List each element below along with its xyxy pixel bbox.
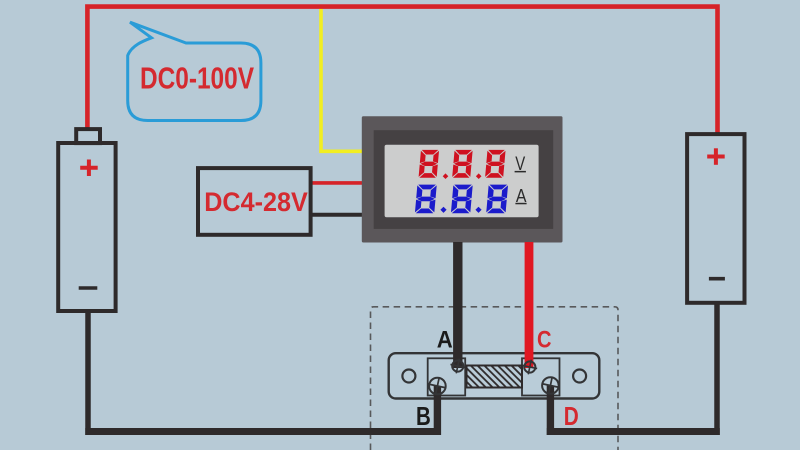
meter M1 panel frame (362, 116, 563, 242)
node label A (437, 327, 453, 354)
wire: red positive bus from battery BT1 + to battery BT2 + (87, 7, 717, 136)
screw C (521, 358, 539, 376)
screw D (540, 375, 561, 396)
shunt resistance element (hatched) (467, 366, 523, 388)
battery BT2 minus terminal label (709, 277, 725, 281)
label DC4-28V (204, 187, 308, 217)
svg-text:B: B (416, 403, 431, 431)
wire: red probe from meter to shunt screw C (525, 242, 534, 368)
battery BT2 plus terminal label (707, 148, 725, 165)
wire: yellow sense wire from red bus to meter (321, 9, 364, 151)
battery BT1 (58, 129, 115, 311)
svg-text:D: D (564, 403, 579, 431)
shunt mounting hole left (402, 370, 415, 383)
svg-text:DC4-28V: DC4-28V (204, 187, 308, 217)
shunt terminal block right (522, 358, 560, 395)
screw A (449, 357, 467, 375)
battery BT1 plus terminal label (80, 160, 98, 177)
wire: shunt terminal B to bottom bus (434, 386, 441, 435)
wire: shunt terminal D to bottom bus (547, 386, 554, 436)
node label D (564, 403, 579, 431)
shunt terminal block left (428, 358, 466, 395)
screw B (427, 375, 448, 396)
battery BT2 (687, 134, 744, 303)
meter V label (515, 154, 526, 175)
wire: black probe from meter to shunt screw A (453, 242, 462, 368)
battery BT1 minus terminal label (79, 286, 98, 290)
meter red voltage display 8.8.8 (419, 150, 506, 179)
power supply box DC4-28V (198, 168, 311, 235)
wire: black from battery BT2 negative to bottom bus (547, 304, 720, 435)
svg-text:A: A (437, 327, 453, 354)
meter A label (515, 186, 526, 206)
label DC0-100V (140, 61, 254, 96)
shunt mounting hole right (573, 370, 586, 383)
dashed enclosure around shunt (371, 307, 619, 450)
wire: black from battery BT1 negative to bottom bus (85, 312, 441, 435)
node label B (416, 403, 431, 431)
node label C (537, 327, 552, 354)
wire: black supply wire from DC4-28V box to meter (312, 213, 364, 217)
callout bubble for DC0-100V (128, 22, 261, 120)
shunt resistor plate (389, 353, 600, 398)
svg-text:DC0-100V: DC0-100V (140, 61, 254, 96)
meter blue current display 8.8.8 (415, 185, 508, 214)
wire: red supply wire from DC4-28V box to meter (312, 181, 364, 185)
svg-text:C: C (537, 327, 552, 354)
